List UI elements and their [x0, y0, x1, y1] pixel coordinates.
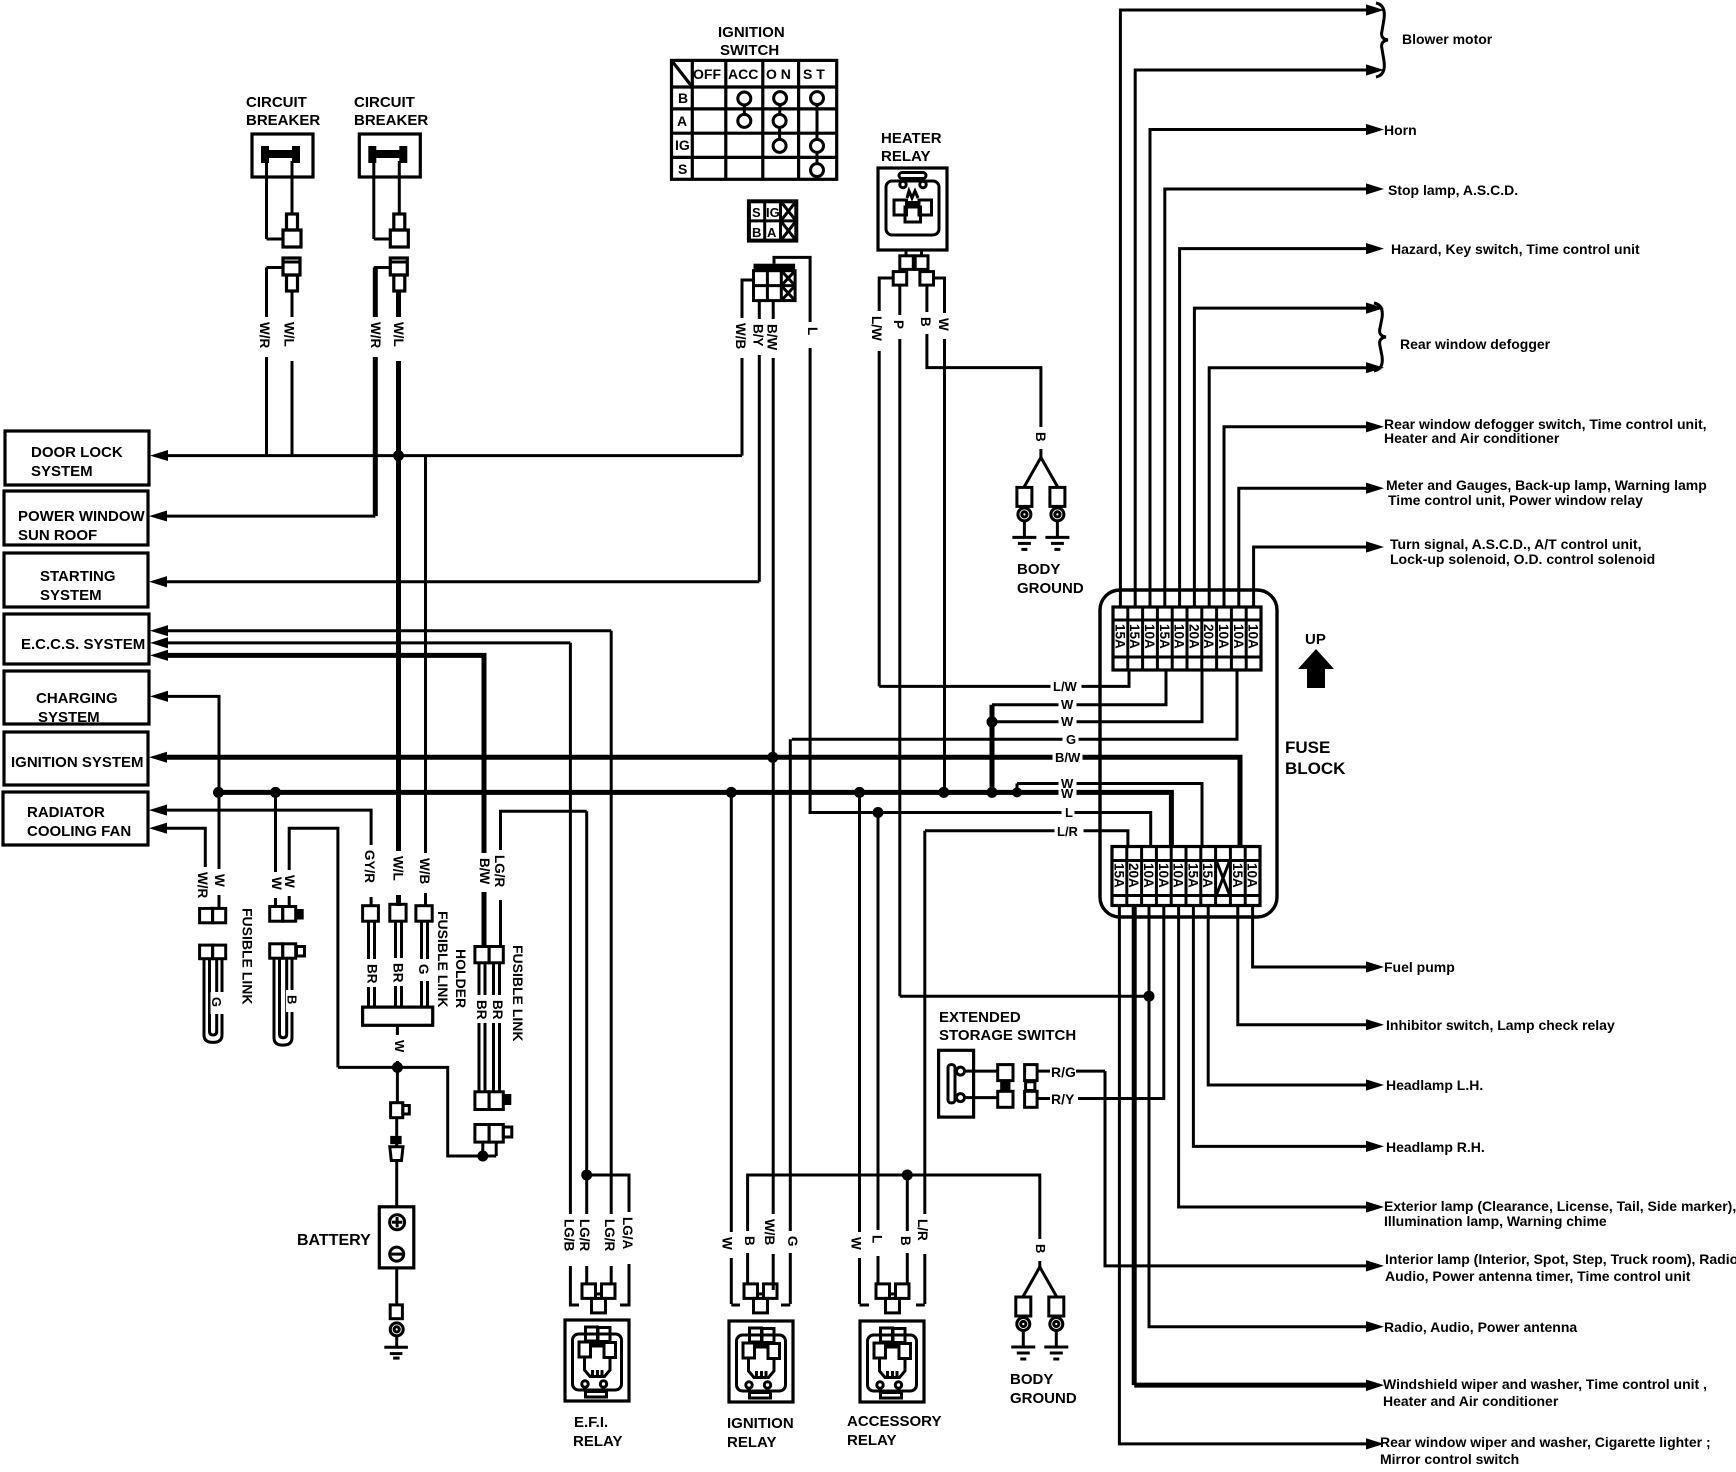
svg-text:S: S — [752, 205, 761, 220]
svg-text:LG/R: LG/R — [492, 855, 507, 887]
svg-text:L/R: L/R — [915, 1219, 930, 1241]
svg-text:G: G — [416, 964, 431, 975]
svg-text:W/B: W/B — [762, 1219, 777, 1245]
svg-text:20A: 20A — [1201, 624, 1216, 649]
svg-text:L/W: L/W — [1053, 679, 1078, 694]
svg-text:GROUND: GROUND — [1010, 1390, 1077, 1407]
svg-text:Stop lamp, A.S.C.D.: Stop lamp, A.S.C.D. — [1388, 182, 1518, 198]
svg-text:Time control unit, Power windo: Time control unit, Power window relay — [1388, 492, 1643, 508]
svg-text:15A: 15A — [1230, 863, 1245, 888]
svg-text:10A: 10A — [1171, 863, 1186, 888]
svg-text:LG/R: LG/R — [577, 1219, 592, 1251]
svg-text:W/B: W/B — [733, 323, 748, 349]
svg-text:E.C.C.S. SYSTEM: E.C.C.S. SYSTEM — [21, 636, 145, 653]
svg-text:SUN ROOF: SUN ROOF — [18, 527, 97, 544]
svg-text:W: W — [212, 874, 227, 887]
svg-text:Heater and Air conditioner: Heater and Air conditioner — [1383, 1393, 1559, 1409]
svg-text:FUSIBLE LINK: FUSIBLE LINK — [435, 911, 451, 1007]
svg-text:IGNITION SYSTEM: IGNITION SYSTEM — [11, 754, 144, 771]
svg-text:CHARGING: CHARGING — [36, 690, 118, 707]
svg-text:Fuel pump: Fuel pump — [1384, 959, 1455, 975]
svg-text:Mirror control switch: Mirror control switch — [1380, 1451, 1519, 1467]
svg-text:IGNITION: IGNITION — [727, 1415, 794, 1432]
svg-text:RELAY: RELAY — [727, 1434, 776, 1451]
svg-text:B: B — [918, 317, 933, 327]
svg-text:BATTERY: BATTERY — [297, 1232, 371, 1249]
svg-text:15A: 15A — [1111, 863, 1126, 888]
svg-text:RELAY: RELAY — [847, 1432, 896, 1449]
svg-text:Audio, Power antenna timer, Ti: Audio, Power antenna timer, Time control… — [1385, 1268, 1691, 1284]
svg-text:A: A — [767, 225, 777, 240]
svg-text:A: A — [677, 113, 687, 129]
svg-text:P: P — [891, 320, 906, 329]
svg-text:RELAY: RELAY — [881, 148, 930, 165]
svg-text:HOLDER: HOLDER — [453, 949, 469, 1008]
svg-text:EXTENDED: EXTENDED — [939, 1009, 1021, 1026]
svg-text:L: L — [805, 327, 820, 335]
svg-text:G: G — [1066, 732, 1076, 747]
svg-text:HEATER: HEATER — [881, 130, 942, 147]
svg-text:Turn signal, A.S.C.D., A/T con: Turn signal, A.S.C.D., A/T control unit, — [1390, 536, 1641, 552]
svg-text:15A: 15A — [1157, 624, 1172, 649]
svg-text:IG: IG — [675, 137, 690, 153]
svg-text:B/W: B/W — [765, 324, 780, 351]
svg-text:B: B — [752, 225, 761, 240]
svg-text:B: B — [898, 1236, 913, 1246]
svg-text:Hazard, Key switch, Time contr: Hazard, Key switch, Time control unit — [1391, 241, 1640, 257]
svg-text:10A: 10A — [1142, 624, 1157, 649]
svg-text:S T: S T — [803, 66, 825, 82]
svg-text:L/R: L/R — [1057, 824, 1079, 839]
svg-text:DOOR LOCK: DOOR LOCK — [31, 444, 123, 461]
svg-text:15A: 15A — [1200, 863, 1215, 888]
svg-text:10A: 10A — [1141, 863, 1156, 888]
svg-text:Meter and Gauges, Back-up lamp: Meter and Gauges, Back-up lamp, Warning … — [1386, 477, 1707, 493]
svg-text:B: B — [742, 1236, 757, 1246]
svg-text:S: S — [678, 161, 687, 177]
svg-text:Horn: Horn — [1384, 122, 1417, 138]
svg-text:15A: 15A — [1127, 624, 1142, 649]
svg-text:15A: 15A — [1112, 624, 1127, 649]
svg-text:ACCESSORY: ACCESSORY — [847, 1413, 941, 1430]
svg-text:SYSTEM: SYSTEM — [38, 709, 100, 726]
svg-text:Windshield wiper and washer, T: Windshield wiper and washer, Time contro… — [1383, 1376, 1707, 1392]
svg-text:OFF: OFF — [693, 66, 721, 82]
svg-text:W/R: W/R — [195, 872, 210, 898]
svg-text:CIRCUIT: CIRCUIT — [246, 94, 307, 111]
svg-text:W/R: W/R — [257, 322, 272, 348]
svg-text:B: B — [285, 995, 300, 1004]
svg-text:W: W — [1061, 697, 1074, 712]
svg-text:LG/B: LG/B — [562, 1219, 577, 1251]
svg-text:L/W: L/W — [869, 316, 884, 341]
svg-text:10A: 10A — [1245, 863, 1260, 888]
svg-text:GROUND: GROUND — [1017, 580, 1084, 597]
svg-text:COOLING FAN: COOLING FAN — [27, 823, 131, 840]
svg-text:BR: BR — [474, 1000, 489, 1020]
svg-text:10A: 10A — [1231, 624, 1246, 649]
svg-text:B: B — [1033, 432, 1048, 442]
svg-text:Headlamp R.H.: Headlamp R.H. — [1386, 1139, 1485, 1155]
svg-text:ACC: ACC — [728, 66, 758, 82]
svg-text:FUSIBLE LINK: FUSIBLE LINK — [510, 945, 526, 1041]
svg-text:GY/R: GY/R — [362, 850, 377, 883]
svg-text:W/L: W/L — [391, 856, 406, 881]
svg-text:W/L: W/L — [391, 322, 406, 347]
svg-text:G: G — [209, 997, 224, 1007]
svg-text:Inhibitor switch, Lamp check r: Inhibitor switch, Lamp check relay — [1386, 1017, 1615, 1033]
svg-text:FUSE: FUSE — [1285, 738, 1330, 757]
svg-text:BREAKER: BREAKER — [354, 112, 428, 129]
svg-text:W: W — [936, 318, 951, 331]
svg-text:LG/A: LG/A — [620, 1217, 635, 1249]
svg-text:10A: 10A — [1156, 863, 1171, 888]
svg-text:L: L — [870, 1235, 885, 1243]
svg-text:Lock-up solenoid, O.D. control: Lock-up solenoid, O.D. control solenoid — [1390, 551, 1655, 567]
svg-text:SYSTEM: SYSTEM — [40, 587, 102, 604]
svg-text:BREAKER: BREAKER — [246, 112, 320, 129]
svg-text:IGNITION: IGNITION — [718, 24, 785, 41]
svg-text:W: W — [1061, 714, 1074, 729]
svg-text:R/Y: R/Y — [1051, 1091, 1075, 1107]
svg-text:10A: 10A — [1216, 624, 1231, 649]
svg-text:LG/R: LG/R — [602, 1219, 617, 1251]
svg-text:B: B — [678, 90, 688, 106]
svg-text:W: W — [282, 875, 297, 888]
svg-text:B/W: B/W — [1055, 750, 1081, 765]
svg-text:B: B — [1033, 1244, 1048, 1253]
svg-text:L: L — [1065, 805, 1073, 820]
svg-text:20A: 20A — [1186, 624, 1201, 649]
svg-text:Exterior lamp (Clearance, Lice: Exterior lamp (Clearance, License, Tail,… — [1384, 1198, 1736, 1214]
svg-text:W: W — [392, 1040, 407, 1053]
svg-text:IG: IG — [766, 205, 780, 220]
svg-text:Rear window defogger: Rear window defogger — [1400, 336, 1551, 352]
svg-text:FUSIBLE LINK: FUSIBLE LINK — [240, 908, 256, 1004]
svg-text:STARTING: STARTING — [40, 568, 116, 585]
svg-text:10A: 10A — [1172, 624, 1187, 649]
svg-text:E.F.I.: E.F.I. — [574, 1414, 608, 1431]
svg-text:BODY: BODY — [1010, 1371, 1053, 1388]
svg-text:B/W: B/W — [477, 858, 492, 885]
svg-text:10A: 10A — [1246, 624, 1261, 649]
svg-text:BLOCK: BLOCK — [1285, 759, 1346, 778]
svg-text:Headlamp L.H.: Headlamp L.H. — [1386, 1077, 1483, 1093]
svg-text:STORAGE SWITCH: STORAGE SWITCH — [939, 1027, 1076, 1044]
svg-text:BR: BR — [490, 1000, 505, 1020]
svg-text:Interior lamp (Interior, Spot,: Interior lamp (Interior, Spot, Step, Tru… — [1385, 1251, 1736, 1267]
svg-text:15A: 15A — [1185, 863, 1200, 888]
svg-text:BR: BR — [365, 964, 380, 984]
svg-text:SWITCH: SWITCH — [720, 42, 779, 59]
svg-text:Rear window wiper and washer,: Rear window wiper and washer, Cigarette … — [1380, 1434, 1711, 1450]
svg-text:Heater and Air conditioner: Heater and Air conditioner — [1384, 430, 1560, 446]
svg-text:W: W — [849, 1237, 864, 1250]
svg-text:O N: O N — [766, 66, 791, 82]
svg-text:W: W — [269, 877, 284, 890]
svg-text:W: W — [1061, 786, 1074, 801]
svg-text:RADIATOR: RADIATOR — [27, 804, 105, 821]
svg-text:W/R: W/R — [368, 322, 383, 348]
svg-text:Illumination lamp, Warning chi: Illumination lamp, Warning chime — [1384, 1213, 1607, 1229]
svg-text:CIRCUIT: CIRCUIT — [354, 94, 415, 111]
svg-text:BR: BR — [391, 963, 406, 983]
svg-text:BODY: BODY — [1017, 561, 1060, 578]
svg-text:W/L: W/L — [282, 322, 297, 347]
svg-text:R/G: R/G — [1051, 1064, 1076, 1080]
svg-text:POWER WINDOW: POWER WINDOW — [18, 508, 145, 525]
svg-text:W: W — [720, 1237, 735, 1250]
svg-text:RELAY: RELAY — [573, 1433, 622, 1450]
svg-text:Radio, Audio, Power antenna: Radio, Audio, Power antenna — [1384, 1319, 1577, 1335]
svg-text:20A: 20A — [1126, 863, 1141, 888]
svg-text:Blower motor: Blower motor — [1402, 31, 1493, 47]
svg-text:UP: UP — [1305, 631, 1326, 648]
svg-text:W/B: W/B — [417, 858, 432, 884]
svg-text:SYSTEM: SYSTEM — [31, 463, 93, 480]
svg-text:B/Y: B/Y — [751, 324, 766, 347]
svg-text:G: G — [785, 1236, 800, 1247]
